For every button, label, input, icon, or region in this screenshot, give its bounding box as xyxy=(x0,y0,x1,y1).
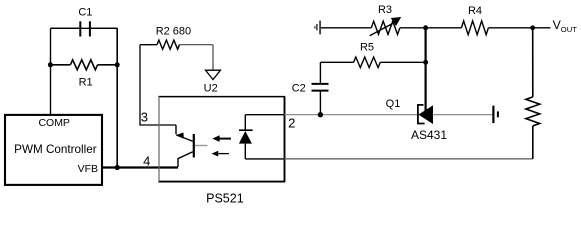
resistor R6 (lower divider) xyxy=(526,97,540,126)
svg-text:R1: R1 xyxy=(79,77,93,89)
node U2 arrow xyxy=(204,70,221,94)
LED D (inside PS521) xyxy=(239,115,253,159)
capacitor C1 xyxy=(51,7,118,37)
wire right vertical to VFB node xyxy=(116,28,118,167)
ground right (AS431 anode) xyxy=(493,106,498,123)
wire top rail to R3 xyxy=(321,27,372,29)
svg-text:3: 3 xyxy=(141,110,148,125)
node dot R5 right junction xyxy=(423,60,428,65)
wire VOUT stub xyxy=(533,27,551,29)
capacitor C2 xyxy=(292,82,329,94)
svg-text:PS521: PS521 xyxy=(206,191,244,205)
opto-coupler U2 PS521 box xyxy=(158,97,285,206)
resistor R1 xyxy=(50,60,117,89)
PWM Controller box U3 xyxy=(5,115,102,185)
node dot VFB junction xyxy=(115,165,120,170)
svg-text:R2 680: R2 680 xyxy=(156,26,191,38)
shunt regulator Q1 AS431 xyxy=(386,98,448,142)
svg-text:COMP: COMP xyxy=(38,117,70,129)
node dot C2 junction xyxy=(318,112,323,117)
wire bottom return (pin1 to R6 bottom) xyxy=(284,158,533,160)
node dot VOUT junction xyxy=(530,25,535,30)
light arrow bottom xyxy=(212,151,229,157)
node dot left R1 xyxy=(48,62,53,67)
node dot R3/R4 junction xyxy=(423,25,428,30)
wire R2 left down to pin 3 xyxy=(140,45,176,125)
svg-text:4: 4 xyxy=(143,153,150,168)
ground left (top rail) xyxy=(315,21,320,35)
resistor R5 xyxy=(321,42,426,68)
wire AS431 anode to ground (gray) xyxy=(433,114,494,116)
node dot right R1 xyxy=(115,62,120,67)
wire R6 down to bottom return xyxy=(532,126,534,159)
svg-text:U2: U2 xyxy=(204,82,218,94)
svg-text:Q1: Q1 xyxy=(386,98,401,110)
wire pin2 to AS431 (gray) xyxy=(284,114,418,116)
light arrow top xyxy=(212,135,231,142)
wire COMP vertical xyxy=(50,28,52,114)
wire LED cathode bottom inside box xyxy=(245,158,284,160)
wire VFB xyxy=(103,166,178,168)
svg-text:PWM Controller: PWM Controller xyxy=(14,143,97,156)
node VOUT label xyxy=(553,18,578,34)
wire top of C1 loop xyxy=(51,27,118,29)
wire LED anode top inside box xyxy=(245,114,284,116)
resistor R2 680 xyxy=(140,26,213,50)
svg-text:OUT: OUT xyxy=(561,25,577,34)
svg-text:R4: R4 xyxy=(468,5,482,17)
wire R4 to VOUT node xyxy=(488,27,532,29)
wire C2 down to pin2 wire xyxy=(319,91,321,115)
svg-text:C1: C1 xyxy=(78,7,92,19)
svg-text:AS431: AS431 xyxy=(411,128,447,142)
resistor R4 xyxy=(461,5,488,35)
wire R3 to node xyxy=(400,27,462,29)
svg-text:2: 2 xyxy=(288,116,295,131)
wire R5 left down to C2 xyxy=(319,62,321,84)
phototransistor Q (inside PS521) xyxy=(176,125,208,167)
wire R2 right down to U2 arrow xyxy=(212,45,214,70)
wire thick vertical R3 node to AS431 ref xyxy=(425,28,427,112)
svg-text:C2: C2 xyxy=(292,82,306,94)
svg-text:VFB: VFB xyxy=(78,163,98,175)
potentiometer R3 xyxy=(370,4,402,36)
svg-text:R5: R5 xyxy=(360,42,374,54)
wire VOUT down to R6 xyxy=(532,28,534,97)
svg-text:R3: R3 xyxy=(378,4,392,16)
